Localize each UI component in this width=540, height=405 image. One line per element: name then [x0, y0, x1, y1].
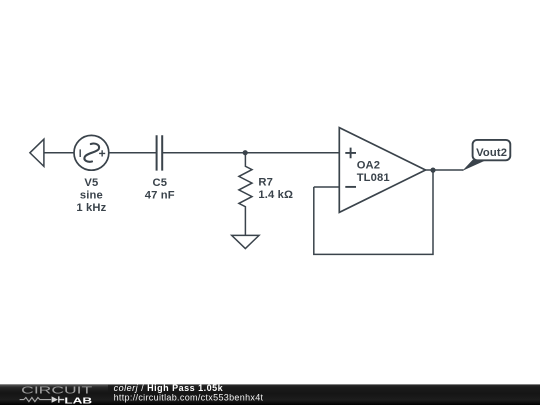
wire source to capacitor	[109, 152, 157, 154]
V5 sine squiggle	[84, 144, 99, 162]
svg-text:47 nF: 47 nF	[145, 189, 175, 201]
footer bar	[0, 384, 540, 405]
svg-text:V5: V5	[84, 177, 98, 189]
wire capacitor to op-amp	[162, 152, 339, 154]
wire inverting input	[314, 186, 340, 188]
voltage source V5 circle	[74, 135, 109, 170]
V5 minus mark	[79, 149, 81, 157]
logo diode	[52, 396, 58, 402]
ground	[232, 235, 259, 248]
Vout2 flag pointer	[462, 160, 487, 171]
V5 plus mark	[99, 150, 105, 156]
logo area sheen	[0, 384, 108, 392]
feedback wire	[314, 170, 433, 254]
output node dot	[430, 168, 435, 173]
op-amp plus sign	[345, 148, 356, 159]
op-amp U triangle	[339, 128, 425, 213]
svg-text:Vout2: Vout2	[476, 147, 507, 159]
svg-text:TL081: TL081	[357, 172, 390, 184]
op-amp minus sign	[345, 186, 356, 188]
svg-text:LAB: LAB	[64, 396, 92, 405]
svg-text:OA2: OA2	[357, 159, 380, 171]
capacitor C5 plates	[157, 135, 163, 170]
logo wire and resistor zigzag	[20, 398, 52, 402]
junction dot	[243, 150, 248, 155]
svg-text:sine: sine	[80, 190, 103, 202]
svg-text:C5: C5	[152, 177, 167, 189]
resistor R7	[239, 153, 252, 236]
svg-text:R7: R7	[258, 176, 273, 188]
input terminal arrow	[30, 139, 44, 166]
svg-text:1.4 kΩ: 1.4 kΩ	[258, 189, 293, 201]
Vout2 flag box	[473, 140, 511, 160]
svg-text:1 kHz: 1 kHz	[76, 202, 106, 214]
wire terminal to source	[44, 152, 74, 154]
output wire	[426, 169, 464, 171]
svg-text:http://circuitlab.com/ctx553be: http://circuitlab.com/ctx553benhx4t	[114, 392, 264, 402]
